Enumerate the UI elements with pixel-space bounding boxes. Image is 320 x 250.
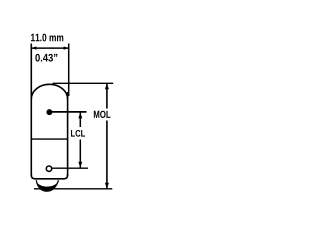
right arrowhead <box>64 46 69 49</box>
LCL top arrowhead <box>78 113 82 119</box>
left extension line / bulb left side <box>30 44 32 140</box>
LCL bottom arrowhead <box>78 162 82 168</box>
MOL top arrowhead <box>105 83 109 89</box>
label 11.0 mm <box>31 34 63 42</box>
label LCL <box>71 130 85 137</box>
LCL dimension line lower <box>79 140 81 168</box>
bulb dome <box>31 84 67 99</box>
LCL dimension line upper <box>79 112 81 127</box>
MOL bottom reference line <box>34 188 112 190</box>
diameter dimension line <box>31 47 68 49</box>
MOL bottom arrowhead <box>105 183 109 189</box>
contact button solid crescent <box>37 183 58 191</box>
MOL top reference line <box>53 82 114 84</box>
right extension line <box>68 44 70 97</box>
bulb right side <box>67 92 69 139</box>
label 0.43 inch <box>35 54 57 62</box>
base bottom with rounded corners <box>31 174 67 179</box>
base left side <box>30 139 32 176</box>
label MOL <box>94 111 111 118</box>
LCL bottom reference line (from pin) <box>52 167 88 169</box>
left arrowhead <box>31 46 36 49</box>
base right side <box>67 139 69 176</box>
contact button <box>36 180 58 191</box>
MOL dimension line lower <box>106 121 108 189</box>
MOL dimension line upper <box>106 83 108 108</box>
filament dot <box>46 109 52 115</box>
bayonet pin <box>46 166 51 171</box>
filament reference line <box>49 111 86 113</box>
glass/base boundary line <box>31 138 67 140</box>
